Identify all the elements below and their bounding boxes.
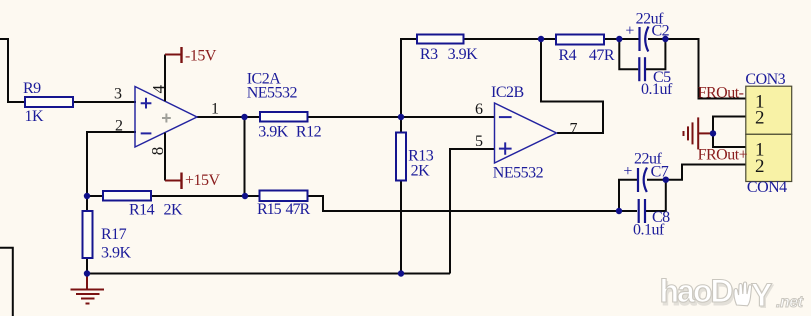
svg-text:R4: R4 [559,47,577,64]
svg-text:6: 6 [475,101,483,118]
svg-text:C7: C7 [651,163,669,180]
svg-text:.net: .net [776,294,804,311]
svg-text:3.9K: 3.9K [448,46,479,63]
svg-text:FROut+: FROut+ [698,147,748,164]
svg-text:CON3: CON3 [745,71,785,88]
svg-text:8: 8 [148,147,167,156]
svg-text:0.1uf: 0.1uf [641,81,673,98]
svg-text:2K: 2K [164,202,184,219]
svg-text:3.9K: 3.9K [258,124,289,141]
svg-text:3.9K: 3.9K [101,245,132,262]
svg-text:NE5532: NE5532 [493,165,544,182]
svg-text:0.1uf: 0.1uf [633,222,665,239]
svg-text:1K: 1K [25,108,45,125]
svg-text:2: 2 [755,108,765,129]
svg-text:+15V: +15V [185,172,221,189]
svg-text:R12: R12 [296,124,322,141]
svg-text:+: + [623,163,632,180]
svg-text:2: 2 [755,156,765,177]
svg-text:haoD: haoD [660,273,733,309]
svg-text:3: 3 [114,86,122,103]
svg-text:+: + [625,23,634,40]
svg-text:R17: R17 [101,226,127,243]
svg-text:Y: Y [751,277,772,313]
svg-text:7: 7 [570,121,578,138]
svg-text:1: 1 [211,101,219,118]
svg-text:R14: R14 [129,202,155,219]
svg-text:5: 5 [475,133,483,150]
svg-text:NE5532: NE5532 [247,85,298,102]
svg-text:R15: R15 [257,201,282,218]
svg-text:R9: R9 [23,80,41,97]
svg-text:2: 2 [115,118,123,135]
svg-text:-15V: -15V [185,48,217,65]
svg-text:4: 4 [149,85,168,94]
svg-text:R3: R3 [420,46,438,63]
svg-text:FROut-: FROut- [698,85,744,102]
svg-text:IC2B: IC2B [491,84,524,101]
svg-text:CON4: CON4 [747,179,787,196]
svg-text:47R: 47R [286,201,311,218]
svg-text:C2: C2 [652,23,670,40]
svg-text:47R: 47R [589,47,615,64]
svg-text:2K: 2K [411,163,431,180]
